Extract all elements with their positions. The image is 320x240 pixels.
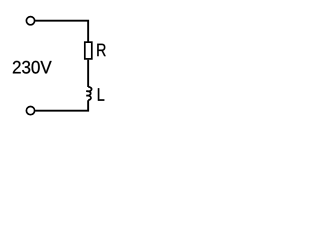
- label 230V: [13, 61, 52, 74]
- terminal bottom-left: [26, 107, 34, 115]
- wire top: from top terminal right then down to resistor: [35, 21, 88, 42]
- circuit schematic: 230V source feeding series R and L: [0, 0, 123, 135]
- label L: [98, 88, 104, 100]
- inductor L (3-loop coil): [86, 87, 91, 100]
- wire: resistor bottom to inductor top: [87, 60, 89, 87]
- wire: inductor bottom, down and left to bottom terminal: [35, 100, 88, 111]
- label R: [97, 44, 105, 56]
- terminal top-left: [26, 17, 34, 25]
- resistor R (box): [85, 42, 92, 59]
